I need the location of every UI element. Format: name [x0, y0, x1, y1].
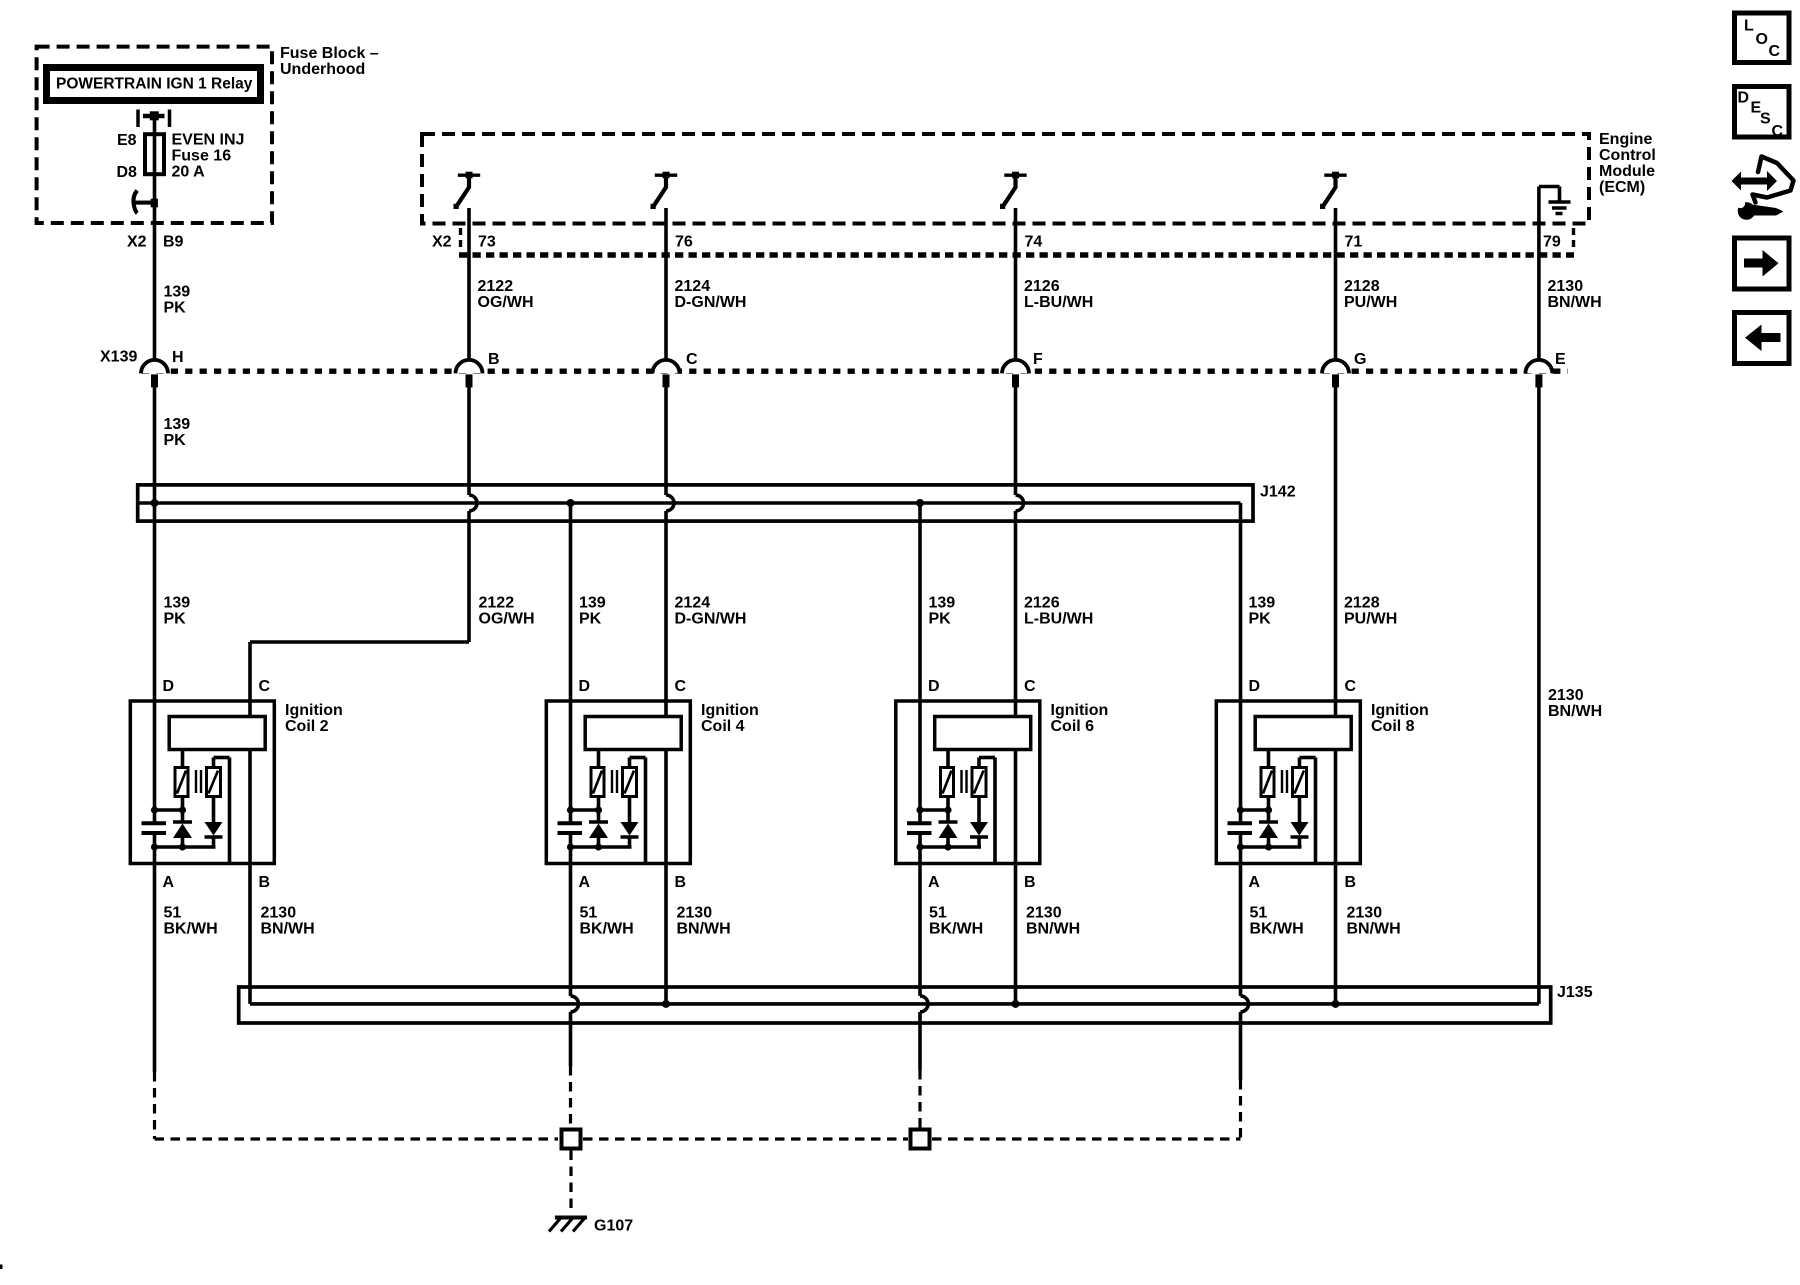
svg-text:G: G — [1354, 351, 1366, 368]
svg-text:139: 139 — [164, 284, 191, 301]
svg-text:A: A — [1249, 874, 1261, 891]
svg-text:79: 79 — [1543, 234, 1561, 251]
svg-text:H: H — [172, 349, 184, 366]
svg-text:A: A — [928, 874, 940, 891]
svg-text:D-GN/WH: D-GN/WH — [675, 611, 747, 628]
svg-text:Engine: Engine — [1599, 131, 1652, 148]
svg-text:L: L — [1744, 18, 1754, 35]
svg-text:Coil 2: Coil 2 — [285, 718, 329, 735]
svg-text:Coil 6: Coil 6 — [1051, 718, 1095, 735]
svg-text:L-BU/WH: L-BU/WH — [1024, 294, 1093, 311]
svg-text:C: C — [1024, 678, 1036, 695]
svg-text:2130: 2130 — [1548, 278, 1584, 295]
svg-text:D: D — [928, 678, 940, 695]
svg-text:X2: X2 — [127, 234, 147, 251]
svg-text:51: 51 — [580, 905, 598, 922]
svg-text:2130: 2130 — [1548, 687, 1584, 704]
svg-text:E: E — [1555, 351, 1566, 368]
svg-text:Fuse 16: Fuse 16 — [172, 148, 232, 165]
svg-text:PK: PK — [164, 432, 187, 449]
svg-text:51: 51 — [1250, 905, 1268, 922]
svg-text:O: O — [1756, 31, 1768, 48]
svg-text:PU/WH: PU/WH — [1344, 294, 1397, 311]
svg-text:20 A: 20 A — [172, 164, 206, 181]
svg-text:B: B — [488, 351, 500, 368]
svg-text:2122: 2122 — [478, 278, 514, 295]
svg-text:J142: J142 — [1260, 484, 1296, 501]
svg-text:C: C — [1345, 678, 1357, 695]
svg-text:B: B — [1024, 874, 1036, 891]
svg-text:BK/WH: BK/WH — [580, 921, 634, 938]
svg-text:BK/WH: BK/WH — [164, 921, 218, 938]
svg-text:D8: D8 — [117, 164, 138, 181]
svg-text:Ignition: Ignition — [701, 702, 759, 719]
svg-text:73: 73 — [478, 234, 496, 251]
svg-text:BN/WH: BN/WH — [1347, 921, 1401, 938]
svg-text:Ignition: Ignition — [1371, 702, 1429, 719]
svg-text:74: 74 — [1025, 234, 1043, 251]
svg-text:Ignition: Ignition — [285, 702, 343, 719]
svg-text:C: C — [686, 351, 698, 368]
svg-text:(ECM): (ECM) — [1599, 179, 1645, 196]
svg-text:2130: 2130 — [261, 905, 297, 922]
svg-text:D: D — [579, 678, 591, 695]
svg-text:139: 139 — [1249, 595, 1276, 612]
svg-text:EVEN INJ: EVEN INJ — [172, 132, 245, 149]
svg-text:B: B — [675, 874, 687, 891]
svg-text:2126: 2126 — [1024, 278, 1060, 295]
svg-text:POWERTRAIN IGN 1 Relay: POWERTRAIN IGN 1 Relay — [56, 76, 253, 93]
svg-text:Fuse Block –: Fuse Block – — [280, 45, 379, 62]
svg-text:2128: 2128 — [1344, 278, 1380, 295]
svg-text:2130: 2130 — [677, 905, 713, 922]
svg-text:C: C — [675, 678, 687, 695]
svg-text:Underhood: Underhood — [280, 61, 365, 78]
svg-text:X2: X2 — [432, 234, 452, 251]
svg-text:2130: 2130 — [1347, 905, 1383, 922]
svg-text:139: 139 — [164, 595, 191, 612]
svg-text:PK: PK — [164, 611, 187, 628]
svg-text:Ignition: Ignition — [1051, 702, 1109, 719]
svg-text:2122: 2122 — [479, 595, 515, 612]
svg-text:F: F — [1033, 351, 1043, 368]
svg-text:BN/WH: BN/WH — [261, 921, 315, 938]
svg-text:2124: 2124 — [675, 595, 711, 612]
svg-text:BN/WH: BN/WH — [1026, 921, 1080, 938]
svg-text:A: A — [163, 874, 175, 891]
svg-text:Module: Module — [1599, 163, 1655, 180]
svg-text:2124: 2124 — [675, 278, 711, 295]
svg-text:X139: X139 — [100, 349, 137, 366]
svg-text:D: D — [163, 678, 175, 695]
svg-text:OG/WH: OG/WH — [479, 611, 535, 628]
svg-text:E8: E8 — [117, 132, 137, 149]
svg-text:BN/WH: BN/WH — [1548, 294, 1602, 311]
svg-text:76: 76 — [675, 234, 693, 251]
svg-text:B: B — [259, 874, 271, 891]
svg-text:L-BU/WH: L-BU/WH — [1024, 611, 1093, 628]
svg-text:BK/WH: BK/WH — [1250, 921, 1304, 938]
svg-text:139: 139 — [164, 416, 191, 433]
svg-text:D-GN/WH: D-GN/WH — [675, 294, 747, 311]
svg-text:2130: 2130 — [1026, 905, 1062, 922]
svg-text:PK: PK — [929, 611, 952, 628]
svg-text:PK: PK — [164, 300, 187, 317]
svg-text:S: S — [1760, 111, 1771, 128]
svg-text:PK: PK — [1249, 611, 1272, 628]
svg-text:PK: PK — [579, 611, 602, 628]
svg-text:BN/WH: BN/WH — [1548, 703, 1602, 720]
svg-text:G107: G107 — [594, 1218, 633, 1235]
svg-text:A: A — [579, 874, 591, 891]
svg-text:BN/WH: BN/WH — [677, 921, 731, 938]
svg-text:51: 51 — [929, 905, 947, 922]
svg-text:Control: Control — [1599, 147, 1656, 164]
svg-text:2128: 2128 — [1344, 595, 1380, 612]
svg-text:2126: 2126 — [1024, 595, 1060, 612]
svg-text:B: B — [1345, 874, 1357, 891]
svg-text:OG/WH: OG/WH — [478, 294, 534, 311]
svg-text:139: 139 — [579, 595, 606, 612]
svg-text:C: C — [1772, 123, 1784, 140]
svg-text:51: 51 — [164, 905, 182, 922]
svg-text:139: 139 — [929, 595, 956, 612]
svg-text:C: C — [1769, 43, 1781, 60]
svg-text:BK/WH: BK/WH — [929, 921, 983, 938]
svg-text:B9: B9 — [163, 234, 184, 251]
svg-text:C: C — [259, 678, 271, 695]
svg-text:D: D — [1738, 90, 1750, 107]
svg-text:Coil 8: Coil 8 — [1371, 718, 1415, 735]
svg-text:D: D — [1249, 678, 1261, 695]
svg-text:71: 71 — [1345, 234, 1363, 251]
svg-text:Coil 4: Coil 4 — [701, 718, 745, 735]
svg-text:PU/WH: PU/WH — [1344, 611, 1397, 628]
svg-text:J135: J135 — [1557, 984, 1593, 1001]
